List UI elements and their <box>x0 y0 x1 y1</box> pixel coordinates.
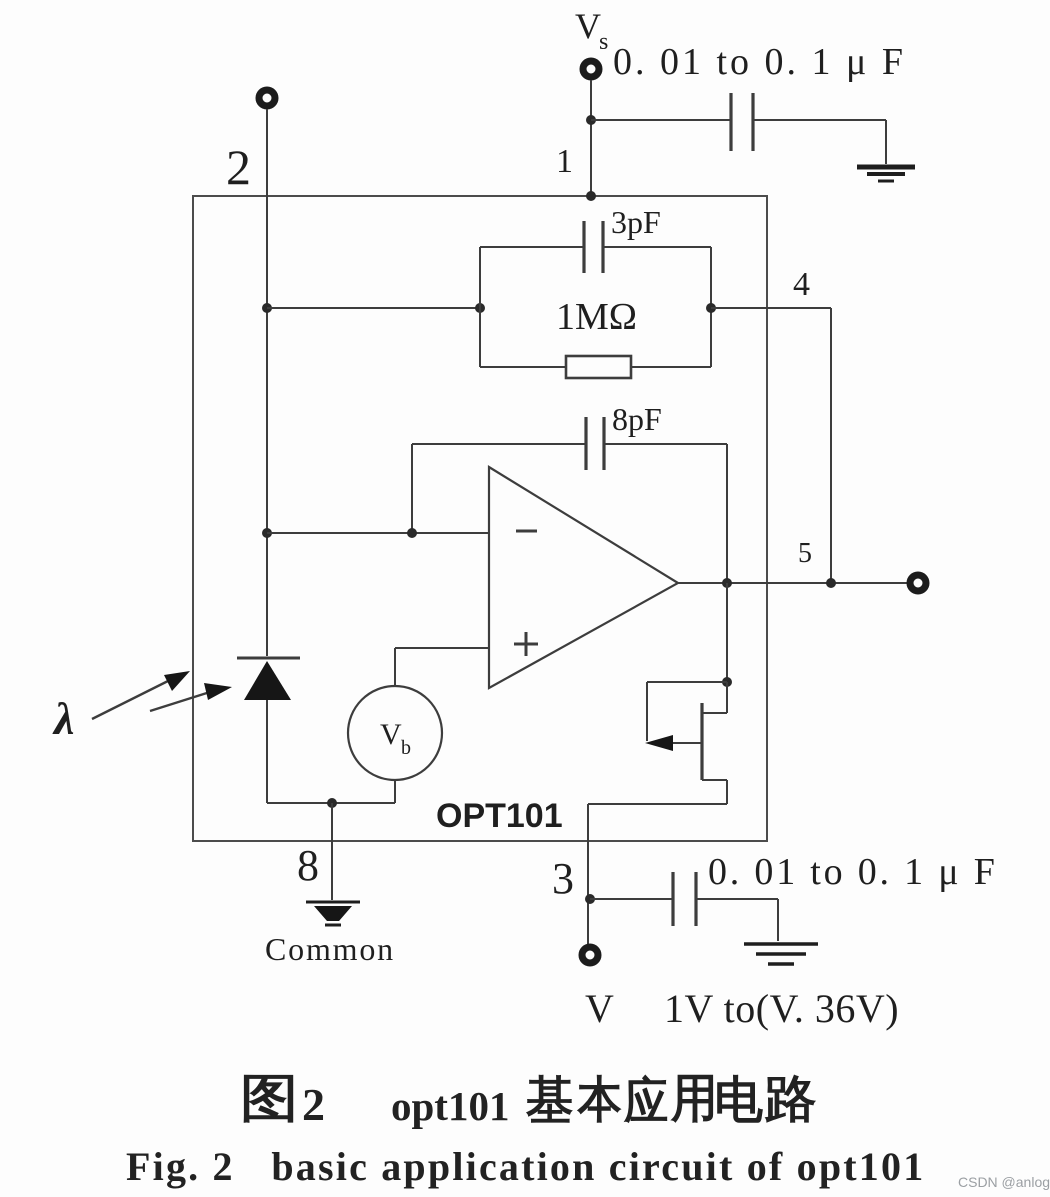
caption figure 2 Chinese <box>244 1076 814 1123</box>
wire 8pF down to output node <box>726 444 728 583</box>
wire pin2 vertical down to photodiode <box>266 109 268 656</box>
photodiode D1 cathode bar <box>237 657 300 660</box>
transistor Q1 gate wire vertical <box>646 682 648 741</box>
ground G1 <box>857 167 915 181</box>
svg-text:0. 01 to 0. 1 μ F: 0. 01 to 0. 1 μ F <box>613 41 906 83</box>
wire 8pF branch top right <box>604 443 727 445</box>
transistor Q1 channel bar <box>700 703 703 780</box>
wire photodiode anode down <box>266 700 268 803</box>
capacitor C3 8pF plates <box>584 417 587 470</box>
wire bottom common rail <box>267 802 395 804</box>
terminal Vs (pin 1 supply) <box>583 61 599 77</box>
svg-text:8pF: 8pF <box>612 401 662 437</box>
op-amp U1A triangle <box>489 467 678 688</box>
svg-text:0. 01 to 0. 1 μ F: 0. 01 to 0. 1 μ F <box>708 851 998 893</box>
wire pin 3 vertical <box>587 804 589 948</box>
photodiode D1 triangle <box>244 661 291 700</box>
wire bypass C1 left <box>591 119 731 121</box>
wire feedback network left <box>267 307 480 309</box>
svg-text:OPT101: OPT101 <box>436 797 563 835</box>
svg-text:Fig. 2 basic application cir: Fig. 2 basic application circuit of opt1… <box>126 1144 925 1189</box>
wire pin 8 down <box>331 803 333 900</box>
svg-text:CSDN @anlog: CSDN @anlog <box>958 1174 1050 1190</box>
node output / pin4 feedback <box>826 578 836 588</box>
svg-text:s: s <box>599 29 608 55</box>
ground common symbol <box>306 902 360 925</box>
op-amp plus sign <box>514 643 538 646</box>
wire feedback loop left side <box>479 247 481 367</box>
node output / 8pF <box>722 578 732 588</box>
wire 8pF branch vertical <box>411 444 413 533</box>
wire pin 4 out <box>711 307 831 309</box>
wire Q1 source to pin 3 rail <box>588 803 727 805</box>
voltage source B1 Vb circle <box>348 686 442 780</box>
svg-text:opt101: opt101 <box>391 1083 509 1129</box>
transistor Q1 gate arrow <box>650 742 702 744</box>
svg-text:V: V <box>575 6 601 46</box>
wire Vb bottom <box>394 780 396 803</box>
node feedback left <box>475 303 485 313</box>
terminal pin 2 <box>259 90 275 106</box>
wire bypass C4 left <box>590 898 673 900</box>
svg-text:λ: λ <box>52 693 74 744</box>
svg-text:5: 5 <box>798 538 812 569</box>
svg-text:Common: Common <box>265 931 395 967</box>
svg-text:4: 4 <box>793 266 810 303</box>
svg-text:1: 1 <box>556 143 573 180</box>
lambda light arrow upper <box>92 676 178 719</box>
wire feedback loop top right <box>603 246 711 248</box>
wire to ground G2 <box>777 899 779 941</box>
svg-text:2: 2 <box>226 139 251 195</box>
svg-text:1MΩ: 1MΩ <box>556 296 637 338</box>
svg-text:3pF: 3pF <box>611 204 661 240</box>
svg-text:b: b <box>401 737 411 759</box>
wire 8pF branch top left <box>412 443 586 445</box>
wire feedback loop top left <box>480 246 584 248</box>
node pin 3 bypass tap <box>585 894 595 904</box>
node 8pF tap on inverting input <box>407 528 417 538</box>
ground G2 <box>744 944 818 964</box>
node pin1 box entry <box>586 191 596 201</box>
wire non-inverting input <box>395 647 489 649</box>
wire op-amp output <box>678 582 911 584</box>
wire feedback loop right side <box>710 247 712 367</box>
wire feedback loop bottom right <box>631 366 711 368</box>
wire bypass C4 right <box>696 898 778 900</box>
op-amp minus sign <box>516 530 537 533</box>
IC box U1 OPT101 outline <box>193 196 767 841</box>
lambda light arrow lower <box>150 692 210 711</box>
transistor Q1 drain connection <box>726 682 728 713</box>
wire pin1 vertical <box>590 80 592 196</box>
node pin1 bypass junction <box>586 115 596 125</box>
transistor Q1 drain wire from output <box>726 583 728 682</box>
wire feedback loop bottom left <box>480 366 566 368</box>
transistor Q1 source connection <box>702 779 727 781</box>
node Q1 gate tap <box>722 677 732 687</box>
svg-text:1V to(V. 36V): 1V to(V. 36V) <box>664 986 899 1031</box>
node pin2 / feedback tap <box>262 303 272 313</box>
capacitor C2 3pF plates <box>582 221 585 273</box>
wire Vb to plus input <box>394 648 396 686</box>
wire to ground G1 <box>885 120 887 164</box>
svg-text:3: 3 <box>552 854 574 903</box>
wire pin 4 down to output <box>830 308 832 583</box>
node pin 8 tap <box>327 798 337 808</box>
svg-text:8: 8 <box>297 841 319 890</box>
svg-text:V: V <box>585 986 614 1031</box>
wire bypass C1 right <box>753 119 886 121</box>
capacitor C1 0.01-0.1uF plates <box>729 93 732 151</box>
svg-text:2: 2 <box>302 1079 325 1130</box>
capacitor C4 0.01-0.1uF plates <box>671 872 674 926</box>
wire inverting input <box>267 532 489 534</box>
node feedback right <box>706 303 716 313</box>
resistor R1 1M ohm body <box>566 356 631 378</box>
terminal pin 5 output <box>910 575 926 591</box>
transistor Q1 gate wire horizontal <box>647 681 727 683</box>
terminal pin 3 (V-) <box>582 947 598 963</box>
svg-text:V: V <box>380 718 402 751</box>
node pin2 / inverting input tap <box>262 528 272 538</box>
